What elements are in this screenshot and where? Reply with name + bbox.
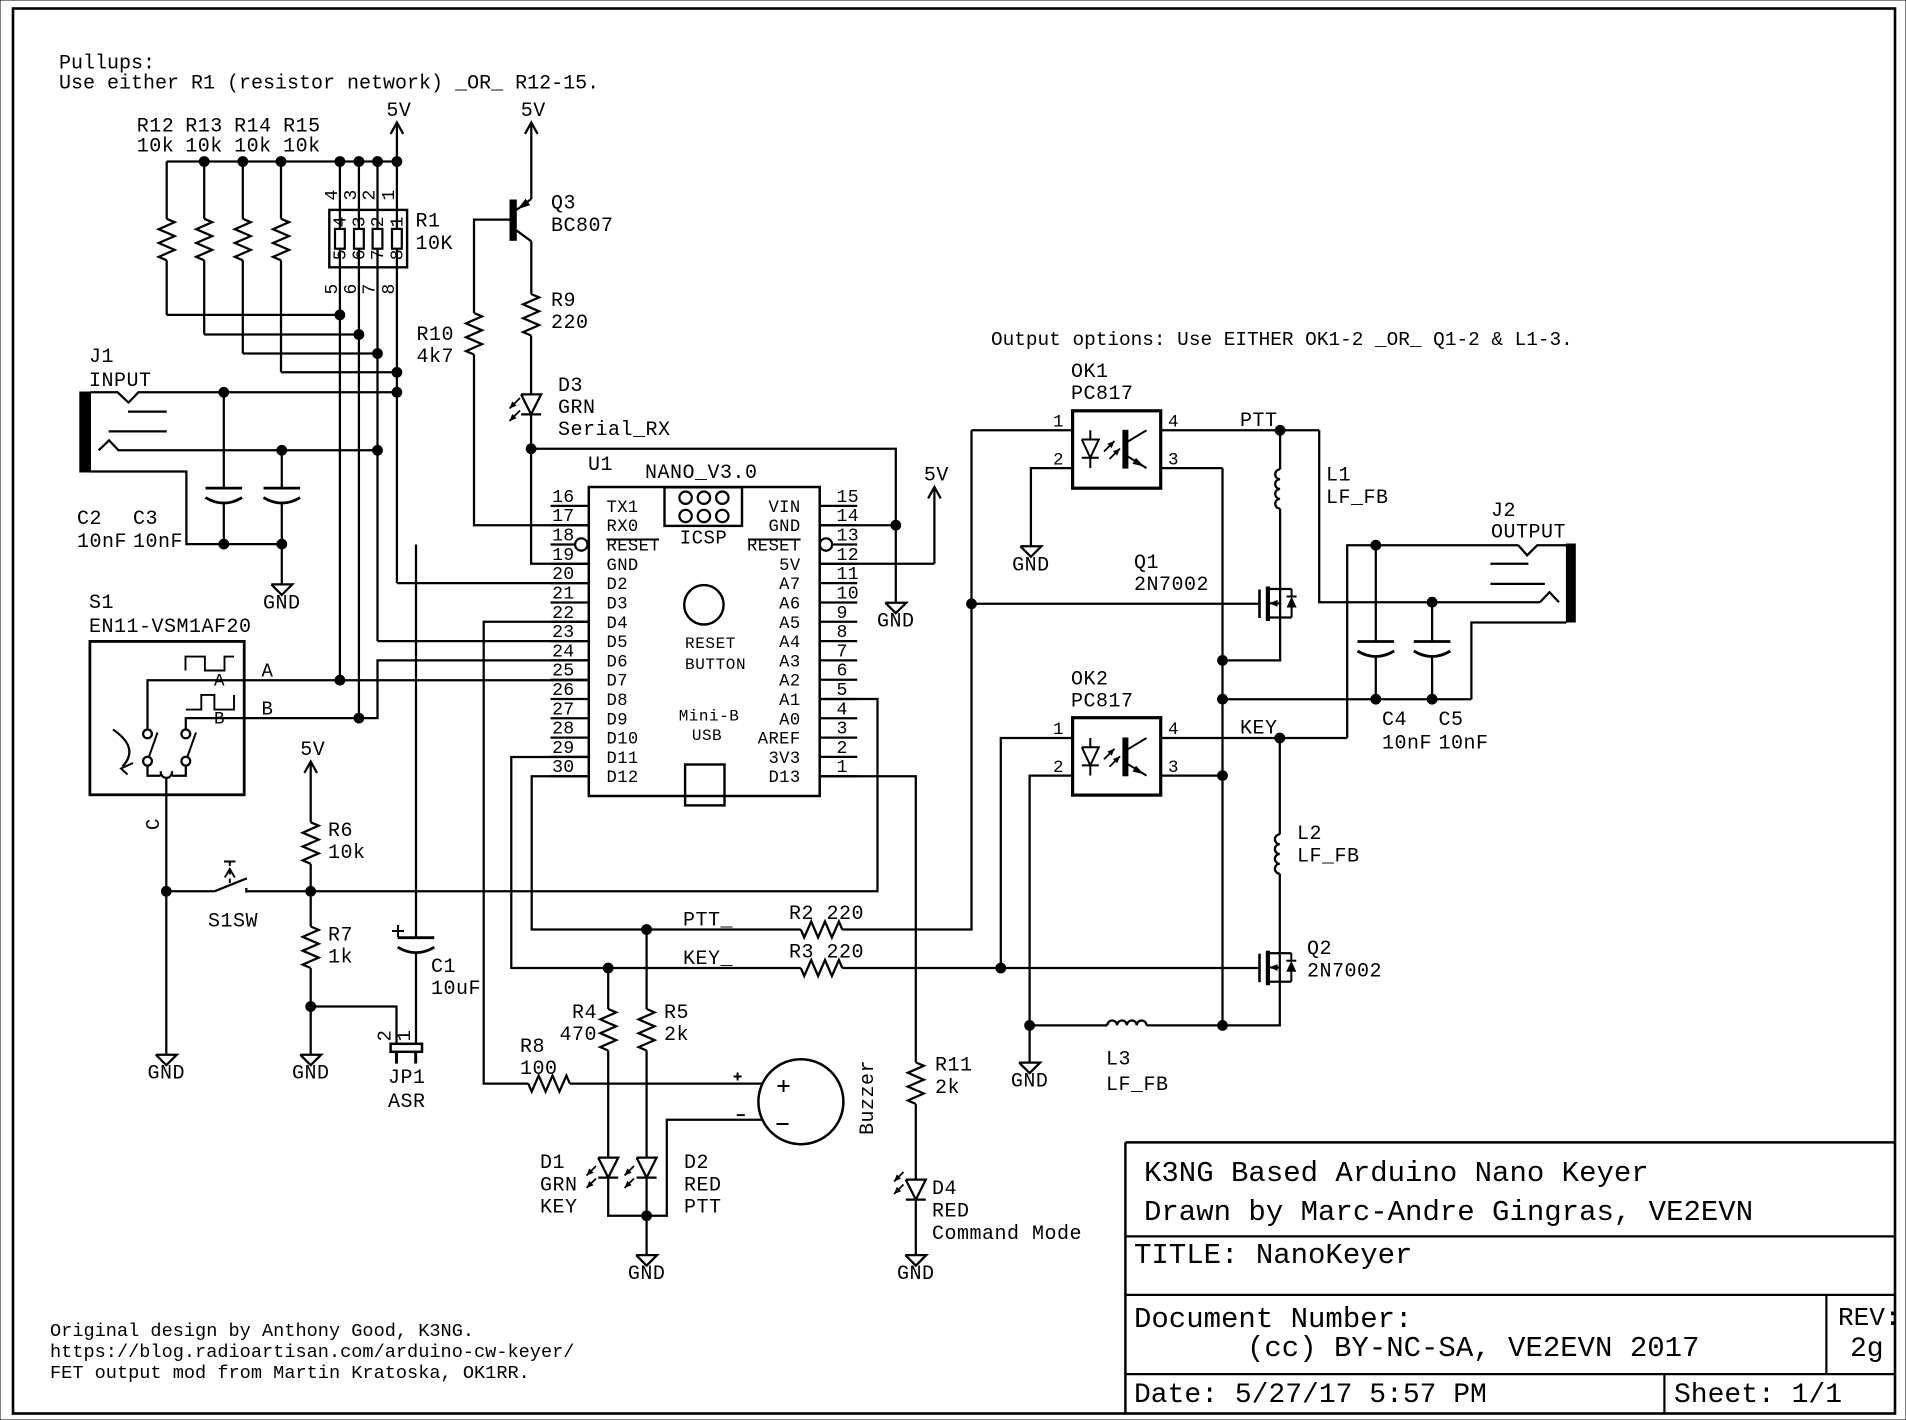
wire rail to output ground — [1223, 698, 1472, 700]
svg-text:OUTPUT: OUTPUT — [1491, 522, 1566, 545]
svg-text:Q3: Q3 — [551, 193, 576, 216]
svg-text:5V: 5V — [386, 100, 411, 123]
svg-text:5V: 5V — [779, 557, 801, 576]
svg-text:R5: R5 — [664, 1002, 689, 1025]
svg-text:PC817: PC817 — [1071, 691, 1134, 714]
svg-text:4: 4 — [1168, 720, 1179, 740]
buzzer BZ1 — [758, 1059, 843, 1144]
S1 internal wire B — [186, 718, 244, 729]
svg-text:L2: L2 — [1297, 823, 1322, 846]
svg-text:2g: 2g — [1850, 1334, 1884, 1365]
ground GND (S1 common) — [165, 891, 167, 1054]
svg-text:J2: J2 — [1491, 500, 1516, 523]
svg-text:R6: R6 — [328, 820, 353, 843]
OK1 pin 1 wire — [972, 429, 1073, 431]
svg-text:Date: 5/27/17 5:57 PM: Date: 5/27/17 5:57 PM — [1134, 1380, 1487, 1411]
wire common rail — [1221, 468, 1223, 1025]
J1 ring contact wire to net D5 — [99, 440, 378, 450]
svg-text:PTT_: PTT_ — [683, 910, 734, 933]
svg-text:A2: A2 — [779, 673, 800, 692]
OK1 internal phototransistor — [1123, 430, 1128, 468]
svg-text:A6: A6 — [779, 595, 800, 614]
svg-text:10uF: 10uF — [431, 978, 481, 1001]
OK2 pin 1 wire — [1001, 738, 1073, 968]
svg-text:PTT: PTT — [1240, 410, 1278, 433]
svg-text:RED: RED — [684, 1175, 722, 1198]
wire KEY node to J2 tip — [1347, 545, 1518, 738]
svg-text:7: 7 — [837, 642, 848, 662]
svg-text:S1SW: S1SW — [208, 911, 258, 934]
wire D1 D2 cathodes join — [608, 1178, 646, 1216]
svg-text:4: 4 — [837, 700, 848, 720]
svg-text:R10: R10 — [416, 324, 454, 347]
OK1 internal LED — [1089, 430, 1091, 439]
OK2 pin 4 wire KEY output — [1161, 737, 1348, 739]
resistor network R1 10K — [329, 210, 407, 267]
svg-text:D1: D1 — [540, 1152, 565, 1175]
wire S1SW to A1 — [247, 699, 878, 891]
svg-text:R9: R9 — [551, 290, 576, 313]
svg-text:L3: L3 — [1106, 1049, 1131, 1072]
wire buzzer minus to LED cathodes — [647, 1120, 762, 1216]
svg-text:D8: D8 — [607, 692, 628, 711]
svg-text:AREF: AREF — [758, 731, 801, 750]
svg-text:2N7002: 2N7002 — [1307, 961, 1382, 984]
svg-text:1: 1 — [1053, 720, 1064, 740]
wire R1 pin7 vertical (net ring/D5) — [376, 162, 378, 229]
wire R3 to OK2 drive / Q2 gate — [842, 967, 1259, 969]
svg-text:GND: GND — [292, 1063, 330, 1086]
svg-text:10nF: 10nF — [77, 531, 127, 554]
svg-text:Q1: Q1 — [1134, 552, 1159, 575]
svg-text:RX0: RX0 — [607, 518, 639, 537]
svg-text:Drawn by Marc-Andre Gingras, V: Drawn by Marc-Andre Gingras, VE2EVN — [1144, 1196, 1753, 1229]
svg-text:A7: A7 — [779, 576, 800, 595]
wire Q3 base to R10 — [474, 220, 510, 313]
svg-text:10k: 10k — [328, 842, 366, 865]
wire R7 to JP1 pin2 — [311, 1007, 397, 1044]
svg-text:A: A — [214, 672, 225, 692]
svg-text:GND: GND — [1011, 1071, 1049, 1094]
svg-text:R7: R7 — [328, 925, 353, 948]
svg-text:A5: A5 — [779, 615, 800, 634]
svg-text:GRN: GRN — [558, 397, 596, 420]
svg-text:2: 2 — [837, 739, 848, 759]
svg-text:D9: D9 — [607, 711, 628, 730]
U1 reset button — [684, 585, 723, 624]
wire GND net to pin19 — [531, 449, 589, 564]
LED D4 RED Command Mode — [906, 1180, 926, 1200]
svg-text:10k: 10k — [234, 136, 272, 159]
svg-text:PTT: PTT — [684, 1197, 722, 1220]
svg-text:RED: RED — [932, 1201, 970, 1224]
OK1 pin 3 wire — [1161, 467, 1223, 469]
svg-text:OK2: OK2 — [1071, 669, 1109, 692]
ground GND (OK2 pin2) — [1028, 1025, 1030, 1062]
svg-text:D12: D12 — [607, 769, 639, 788]
svg-text:A4: A4 — [779, 634, 800, 653]
svg-text:25: 25 — [552, 662, 574, 682]
ground GND (R7) — [310, 1007, 312, 1055]
svg-text:4k7: 4k7 — [416, 346, 454, 369]
resistor R9 220 — [523, 294, 539, 336]
svg-text:Use either R1 (resistor networ: Use either R1 (resistor network) _OR_ R1… — [59, 73, 599, 96]
svg-text:S1: S1 — [89, 592, 114, 615]
svg-text:Output options: Use EITHER OK1: Output options: Use EITHER OK1-2 _OR_ Q1… — [991, 329, 1573, 351]
svg-text:10k: 10k — [283, 136, 321, 159]
svg-text:KEY_: KEY_ — [683, 948, 734, 971]
resistor R11 2k — [908, 1062, 924, 1104]
svg-text:5V: 5V — [924, 465, 949, 488]
svg-text:C1: C1 — [431, 956, 456, 979]
svg-text:5V: 5V — [300, 739, 325, 762]
wire R9 to D3 — [530, 336, 532, 395]
svg-text:10nF: 10nF — [1382, 733, 1432, 756]
svg-text:VIN: VIN — [768, 499, 800, 518]
svg-text:R1: R1 — [416, 210, 441, 233]
svg-text:20: 20 — [552, 565, 574, 585]
resistor R10 4k7 — [466, 313, 482, 355]
svg-text:1k: 1k — [328, 947, 353, 970]
U1 RESET overbar left — [607, 539, 660, 541]
wire net B to D6 — [244, 660, 589, 718]
svg-text:ASR: ASR — [388, 1091, 426, 1114]
wire net ring to D5 — [378, 640, 589, 642]
svg-text:2k: 2k — [935, 1077, 960, 1100]
svg-text:470: 470 — [559, 1024, 597, 1047]
OK2 internal LED — [1089, 738, 1091, 747]
svg-text:GND: GND — [877, 611, 915, 634]
wire D4 pin22 to R8 — [484, 622, 589, 1084]
wire D3 cathode to GND net — [530, 414, 532, 448]
svg-text:28: 28 — [552, 720, 574, 740]
svg-text:16: 16 — [552, 488, 574, 508]
svg-text:Sheet: 1/1: Sheet: 1/1 — [1674, 1380, 1842, 1411]
svg-text:21: 21 — [552, 584, 574, 604]
svg-text:5V: 5V — [521, 100, 546, 123]
svg-text:Mini-B: Mini-B — [679, 708, 740, 726]
wire R5 to D2 — [645, 1051, 647, 1158]
svg-text:2k: 2k — [664, 1024, 689, 1047]
svg-text:RESET: RESET — [685, 635, 736, 653]
svg-text:Serial_RX: Serial_RX — [558, 419, 671, 442]
switch S1SW — [166, 890, 214, 892]
power 5V (Q3 emitter) — [530, 123, 532, 200]
svg-text:Command Mode: Command Mode — [932, 1223, 1082, 1246]
svg-text:2N7002: 2N7002 — [1134, 574, 1209, 597]
svg-text:10nF: 10nF — [1439, 733, 1489, 756]
OK2 internal phototransistor — [1123, 738, 1128, 776]
svg-text:3V3: 3V3 — [768, 750, 800, 769]
svg-text:26: 26 — [552, 681, 574, 701]
ground GND (D1 D2) — [645, 1216, 647, 1255]
S1 waveform A — [186, 657, 235, 671]
svg-text:A3: A3 — [779, 653, 800, 672]
svg-text:18: 18 — [552, 527, 574, 547]
svg-text:D7: D7 — [607, 673, 628, 692]
svg-text:https://blog.radioartisan.com/: https://blog.radioartisan.com/arduino-cw… — [50, 1342, 574, 1363]
svg-text:2: 2 — [369, 216, 389, 227]
power 5V (U1 pin12) — [820, 563, 935, 565]
svg-text:8: 8 — [388, 249, 408, 260]
svg-text:15: 15 — [837, 488, 859, 508]
OK2 pin 2 wire — [1030, 776, 1073, 1026]
resistor R6 10k — [303, 822, 319, 864]
svg-text:10nF: 10nF — [133, 531, 183, 554]
wire R8 to buzzer plus — [570, 1082, 762, 1084]
wire KEY_ net from D11 — [511, 757, 801, 968]
svg-text:EN11-VSM1AF20: EN11-VSM1AF20 — [89, 616, 252, 639]
power 5V (pullup bus) — [396, 123, 398, 162]
ground GND (U1 pin14) — [895, 525, 897, 603]
wire GND net to pin14 — [531, 449, 896, 525]
svg-text:27: 27 — [552, 700, 574, 720]
wire R1 pin6 vertical (net B) — [358, 162, 360, 229]
svg-text:U1: U1 — [588, 454, 613, 477]
ground GND (D4) — [915, 1200, 917, 1256]
J2 shield to caps — [1471, 623, 1566, 700]
svg-text:L1: L1 — [1326, 465, 1351, 488]
svg-text:J1: J1 — [89, 346, 114, 369]
svg-text:GND: GND — [148, 1063, 186, 1086]
svg-text:6: 6 — [350, 249, 370, 260]
OK1 pin 4 wire PTT output — [1161, 429, 1320, 431]
svg-text:C2: C2 — [77, 508, 102, 531]
svg-text:D2: D2 — [684, 1152, 709, 1175]
J1 sleeve to ground rail — [91, 472, 282, 545]
svg-text:Buzzer: Buzzer — [857, 1060, 880, 1135]
transistor Q3 BC807 PNP — [510, 200, 516, 240]
svg-text:GND: GND — [628, 1263, 666, 1286]
OK1 pin 2 wire — [1031, 468, 1073, 546]
svg-text:1: 1 — [388, 216, 408, 227]
wire R14 to node pin7 — [243, 352, 378, 354]
wire R2 to OK1 drive node — [842, 430, 971, 929]
wire R11 to D4 — [915, 1104, 917, 1180]
inductor L1 LF_FB — [1279, 430, 1281, 469]
svg-text:GND: GND — [897, 1263, 935, 1286]
svg-text:GND: GND — [607, 557, 639, 576]
svg-text:D11: D11 — [607, 750, 639, 769]
wire D13 pin1 to R11 — [820, 776, 916, 1062]
wire Q2 source down — [1223, 982, 1280, 1026]
capacitor C3 10nF — [281, 450, 283, 488]
svg-text:D5: D5 — [607, 634, 628, 653]
svg-text:3: 3 — [1168, 450, 1179, 470]
svg-text:D6: D6 — [607, 653, 628, 672]
svg-text:4: 4 — [1168, 413, 1179, 433]
svg-text:10k: 10k — [137, 136, 175, 159]
capacitor C1 10uF polarized — [415, 545, 417, 938]
ground GND (input filter) — [281, 544, 283, 584]
svg-text:R11: R11 — [935, 1055, 973, 1078]
svg-text:2: 2 — [1053, 758, 1064, 778]
capacitor C4 10nF — [1375, 545, 1377, 641]
svg-text:LF_FB: LF_FB — [1297, 846, 1360, 869]
U1 right pins 15-1 — [820, 505, 858, 507]
svg-text:R8: R8 — [520, 1036, 545, 1059]
svg-text:GRN: GRN — [540, 1175, 578, 1198]
Q1 body diode — [1280, 588, 1292, 590]
svg-text:INPUT: INPUT — [89, 370, 152, 393]
S1 waveform B — [186, 695, 234, 710]
junction dots on 5V bus — [199, 157, 209, 167]
U1 RESET overbar right — [748, 539, 801, 541]
wire 5V bus — [167, 160, 397, 162]
svg-text:KEY: KEY — [1240, 718, 1278, 741]
svg-text:C4: C4 — [1382, 709, 1407, 732]
svg-text:NANO_V3.0: NANO_V3.0 — [645, 462, 758, 485]
Q2 body diode — [1280, 952, 1292, 954]
svg-text:KEY: KEY — [540, 1197, 578, 1220]
wire net tip to D2 — [397, 582, 589, 584]
svg-text:9: 9 — [837, 604, 848, 624]
wire net A to D7 — [244, 679, 589, 681]
svg-text:C3: C3 — [133, 508, 158, 531]
svg-text:TX1: TX1 — [607, 499, 639, 518]
S1 internal wire A — [148, 680, 245, 729]
J1 ring switch lines — [128, 410, 167, 412]
svg-text:Original design by Anthony Goo: Original design by Anthony Good, K3NG. — [50, 1321, 474, 1342]
svg-text:220: 220 — [551, 312, 589, 335]
svg-text:10: 10 — [837, 584, 859, 604]
svg-text:1: 1 — [1053, 413, 1064, 433]
svg-text:5: 5 — [837, 681, 848, 701]
capacitor C2 10nF — [223, 392, 225, 488]
svg-text:8: 8 — [837, 623, 848, 643]
wire PTT node to J2 — [1319, 430, 1540, 602]
svg-text:GND: GND — [1012, 554, 1050, 577]
svg-text:C5: C5 — [1439, 709, 1464, 732]
resistor R7 1k — [310, 891, 312, 926]
U1 ICSP header — [665, 487, 743, 526]
wire R12 to node pin5 — [167, 314, 340, 316]
svg-text:A0: A0 — [779, 711, 800, 730]
svg-text:D3: D3 — [607, 595, 628, 614]
svg-text:LF_FB: LF_FB — [1106, 1074, 1169, 1097]
svg-text:23: 23 — [552, 623, 574, 643]
LED D1 GRN KEY — [598, 1158, 618, 1178]
svg-text:(cc) BY-NC-SA, VE2EVN 2017: (cc) BY-NC-SA, VE2EVN 2017 — [1247, 1332, 1699, 1365]
svg-text:GND: GND — [263, 592, 301, 615]
wire R1 pin5 vertical (net A) — [339, 162, 341, 229]
svg-text:R4: R4 — [572, 1002, 597, 1025]
svg-text:13: 13 — [837, 527, 859, 547]
jumper JP1 ASR — [391, 1044, 422, 1052]
inductor L2 LF_FB — [1279, 738, 1281, 834]
wire R4 to D1 — [607, 1051, 609, 1158]
svg-text:TITLE: NanoKeyer: TITLE: NanoKeyer — [1134, 1239, 1412, 1272]
svg-text:10K: 10K — [416, 233, 454, 256]
OK2 pin 3 wire — [1161, 774, 1223, 776]
wire R15 to node pin8 — [281, 371, 397, 373]
S1 switch blades — [149, 733, 158, 758]
svg-text:PC817: PC817 — [1071, 383, 1134, 406]
resistor R5 2k — [645, 930, 647, 1010]
power 5V (R6) — [310, 762, 312, 823]
svg-text:BC807: BC807 — [551, 215, 614, 238]
ground GND (OK1 pin2) — [1020, 546, 1041, 557]
U1 left pins 16-30 — [551, 505, 589, 507]
wire R1 pin8 vertical (net tip/D2) — [396, 162, 398, 229]
svg-text:D10: D10 — [607, 731, 639, 750]
wire Q3 collector to R9 — [530, 241, 532, 294]
svg-text:USB: USB — [692, 727, 722, 745]
resistor R4 470 — [607, 968, 609, 1009]
junction S1 common — [161, 886, 171, 896]
svg-text:JP1: JP1 — [388, 1067, 426, 1090]
svg-text:D2: D2 — [607, 576, 628, 595]
J2 sleeve contact — [1540, 592, 1559, 602]
LED D2 RED PTT — [637, 1158, 657, 1178]
inductor L3 LF_FB — [1030, 1024, 1108, 1026]
capacitor C5 10nF — [1431, 602, 1433, 641]
svg-text:10k: 10k — [185, 136, 223, 159]
svg-text:11: 11 — [837, 565, 859, 585]
svg-text:OK1: OK1 — [1071, 361, 1109, 384]
svg-text:7: 7 — [369, 249, 389, 260]
svg-text:REV:: REV: — [1838, 1303, 1900, 1333]
J1 tip contact — [91, 392, 397, 402]
S1 rotation arrow — [113, 730, 129, 767]
J2 tip contact — [1518, 545, 1566, 555]
svg-text:24: 24 — [552, 642, 574, 662]
S1 switch contacts — [143, 730, 152, 739]
svg-text:1: 1 — [394, 1030, 416, 1042]
svg-text:5: 5 — [331, 249, 351, 260]
svg-text:D3: D3 — [558, 375, 583, 398]
LED D3 GRN Serial_RX — [521, 394, 541, 414]
J2 ring switch lines — [1490, 563, 1528, 565]
svg-text:B: B — [214, 709, 225, 729]
wire Q1 source to rail — [1223, 618, 1281, 661]
svg-text:A1: A1 — [779, 692, 800, 711]
wire R13 to node pin6 — [204, 333, 359, 335]
svg-text:D4: D4 — [932, 1178, 957, 1201]
svg-text:C: C — [143, 818, 165, 830]
svg-text:BUTTON: BUTTON — [685, 656, 746, 674]
svg-text:K3NG Based Arduino Nano Keyer: K3NG Based Arduino Nano Keyer — [1144, 1157, 1649, 1190]
svg-text:FET output mod from Martin Kra: FET output mod from Martin Kratoska, OK1… — [50, 1363, 530, 1384]
svg-text:6: 6 — [837, 662, 848, 682]
svg-text:3: 3 — [350, 216, 370, 227]
svg-text:Q2: Q2 — [1307, 938, 1332, 961]
S1 pin C stem — [165, 778, 167, 892]
svg-text:D13: D13 — [768, 769, 800, 788]
svg-text:3: 3 — [837, 720, 848, 740]
svg-text:D4: D4 — [607, 615, 628, 634]
svg-text:3: 3 — [1168, 758, 1179, 778]
svg-text:GND: GND — [768, 518, 800, 537]
svg-text:ICSP: ICSP — [680, 528, 728, 550]
wire R10 to RX0 pin17 — [474, 355, 589, 526]
wire PTT_ net from D12 — [532, 776, 801, 929]
S1 common contact — [148, 766, 161, 776]
svg-text:LF_FB: LF_FB — [1326, 487, 1389, 510]
svg-text:2: 2 — [1053, 450, 1064, 470]
svg-text:4: 4 — [331, 216, 351, 227]
title block frame — [1125, 1141, 1895, 1144]
